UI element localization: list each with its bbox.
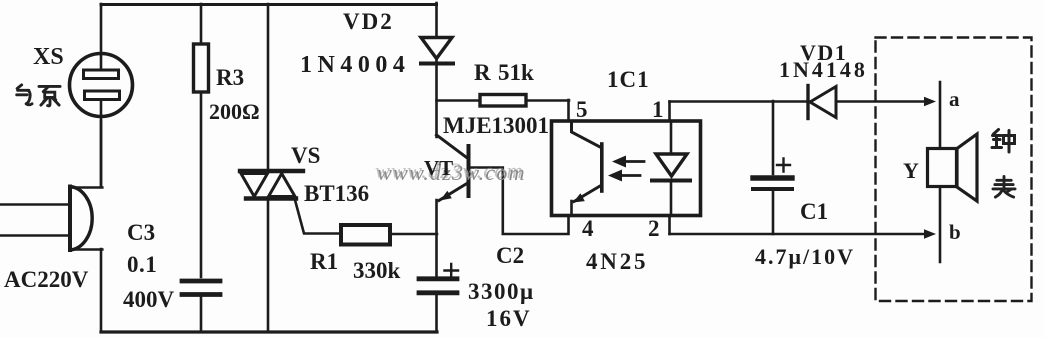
- svg-text:1C1: 1C1: [607, 67, 650, 92]
- svg-text:R: R: [474, 60, 491, 85]
- svg-text:200Ω: 200Ω: [209, 99, 260, 124]
- svg-text:VS: VS: [291, 143, 320, 168]
- svg-text:b: b: [949, 220, 961, 244]
- svg-text:C2: C2: [496, 243, 524, 268]
- svg-text:4N25: 4N25: [586, 249, 648, 274]
- svg-text:Y: Y: [903, 158, 919, 183]
- svg-text:R1: R1: [310, 249, 338, 274]
- svg-text:XS: XS: [33, 44, 64, 70]
- svg-text:3300μ: 3300μ: [468, 279, 535, 304]
- svg-text:VT: VT: [424, 156, 453, 180]
- svg-text:2: 2: [648, 216, 660, 241]
- svg-text:330k: 330k: [353, 258, 401, 283]
- svg-text:51k: 51k: [498, 60, 534, 85]
- svg-text:VD2: VD2: [343, 9, 394, 34]
- svg-text:BT136: BT136: [304, 181, 369, 206]
- svg-text:C3: C3: [127, 220, 155, 245]
- svg-text:C1: C1: [800, 199, 828, 224]
- svg-text:4: 4: [582, 216, 594, 241]
- svg-text:4.7μ/10V: 4.7μ/10V: [755, 244, 855, 269]
- svg-text:5: 5: [576, 97, 588, 122]
- svg-text:a: a: [949, 87, 960, 111]
- svg-text:AC220V: AC220V: [4, 267, 89, 292]
- svg-text:16V: 16V: [486, 306, 532, 331]
- svg-text:R3: R3: [216, 65, 244, 90]
- svg-text:1: 1: [652, 97, 664, 122]
- svg-text:MJE13001: MJE13001: [443, 113, 549, 138]
- svg-text:400V: 400V: [123, 287, 175, 312]
- svg-text:0.1: 0.1: [127, 252, 157, 277]
- svg-text:1N4004: 1N4004: [300, 52, 410, 78]
- svg-text:1N4148: 1N4148: [779, 57, 868, 82]
